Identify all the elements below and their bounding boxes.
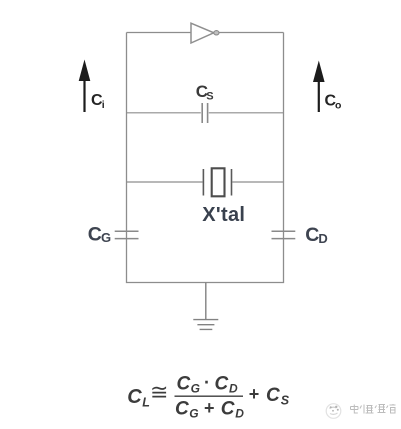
svg-text:C: C bbox=[88, 223, 102, 245]
svg-text:C: C bbox=[221, 398, 235, 419]
svg-text:o: o bbox=[335, 100, 341, 112]
svg-text:C: C bbox=[175, 398, 189, 419]
svg-text:C: C bbox=[215, 374, 229, 395]
svg-text:G: G bbox=[189, 406, 198, 420]
svg-text:S: S bbox=[281, 394, 290, 408]
svg-text:G: G bbox=[101, 230, 111, 245]
svg-text:C: C bbox=[127, 386, 142, 408]
svg-text:C: C bbox=[266, 385, 280, 406]
svg-text:X'tal: X'tal bbox=[202, 204, 245, 226]
svg-text:D: D bbox=[229, 382, 238, 396]
svg-text:·: · bbox=[204, 373, 210, 393]
svg-text:C: C bbox=[305, 224, 319, 246]
svg-text:G: G bbox=[191, 382, 200, 396]
svg-text:S: S bbox=[206, 91, 213, 103]
svg-text:C: C bbox=[177, 374, 191, 395]
svg-text:+: + bbox=[204, 398, 215, 418]
svg-text:+: + bbox=[249, 384, 260, 404]
svg-text:≅: ≅ bbox=[150, 379, 168, 404]
svg-text:L: L bbox=[142, 395, 150, 409]
svg-text:D: D bbox=[318, 231, 327, 246]
svg-text:D: D bbox=[235, 406, 244, 420]
svg-text:i: i bbox=[102, 99, 105, 111]
